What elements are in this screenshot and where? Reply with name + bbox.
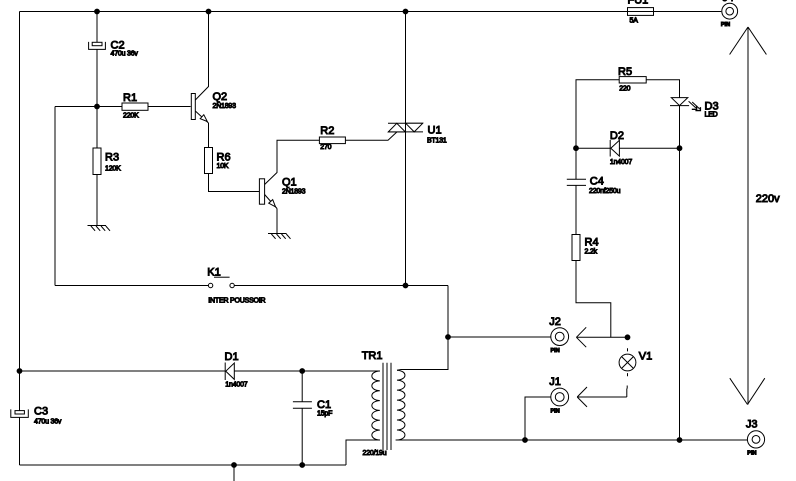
wire C1 riser bottom [301,408,303,465]
svg-text:PIN: PIN [721,22,730,28]
wire J1 arrow riser [626,389,628,398]
svg-text:TR1: TR1 [362,350,383,362]
svg-text:1n4007: 1n4007 [610,159,632,166]
svg-text:FU1: FU1 [628,0,649,7]
svg-text:470u 36v: 470u 36v [111,51,139,58]
wire R3 bottom [96,175,98,226]
junction base row [95,104,100,109]
junction V1 top [625,335,630,340]
diode D2 [610,130,632,166]
arrow into J1 [577,387,627,407]
wire C2 bottom [96,49,98,106]
wire primary return [346,440,380,465]
wire V1 dash c [626,386,628,389]
wire V1 dash a [627,348,629,351]
arrow into J2 [576,327,611,347]
junction K1 triac [403,283,408,288]
wire R6 to Q1 base [209,174,260,192]
wire C4 top [575,148,577,179]
resistor R5 [618,66,646,93]
wire bottom rail [396,439,748,441]
svg-text:INTER POUSSOIR: INTER POUSSOIR [208,298,265,305]
resistor R4 [572,235,599,261]
svg-text:LED: LED [705,112,718,119]
junction left D1 [17,369,22,374]
wire C1 riser top [301,371,303,402]
svg-text:PIN: PIN [747,451,756,457]
wire D3 down [679,106,681,440]
wire R2 to gate [345,132,397,140]
junction top triac [403,9,408,14]
wire R1 to Q2 [148,106,191,108]
svg-text:270: 270 [320,144,331,151]
wire D2 row right [619,147,679,149]
svg-text:5A: 5A [630,18,639,25]
transistor Q1 [259,177,305,209]
wire V1 dash b [627,373,629,376]
svg-text:J3: J3 [746,419,758,431]
switch K1 [207,267,265,305]
resistor R6 [205,148,231,174]
diode D1 [225,351,248,388]
svg-text:220: 220 [619,86,630,93]
svg-text:15pF: 15pF [317,411,332,418]
fuse FU1 [628,0,654,25]
svg-text:R4: R4 [585,237,599,249]
wire triac vertical [405,12,407,286]
wire Q1 collector to R2 [265,140,320,184]
ground under Q1 [268,234,291,239]
svg-text:2N1893: 2N1893 [213,103,237,110]
ground under R3 [88,226,111,231]
wire K1 right [234,285,448,287]
svg-text:PIN: PIN [551,408,560,414]
svg-text:10K: 10K [217,163,229,170]
junction C1 top [300,369,305,374]
wire base row left [55,106,122,108]
svg-text:V1: V1 [639,351,652,363]
wire bottom-left rail [20,464,347,466]
wire R5 to D3 [646,80,679,98]
connector J2 [549,316,568,354]
resistor R1 [122,92,148,120]
wire K1 left [55,285,208,287]
svg-text:220v: 220v [756,193,780,205]
lamp V1 [619,351,652,371]
svg-text:PIN: PIN [551,348,560,354]
svg-text:J2: J2 [549,316,561,328]
LED D3 [670,98,719,119]
wire J2 feed [448,336,551,338]
resistor R3 [93,148,121,175]
capacitor C1 [293,399,332,418]
svg-text:2N1893: 2N1893 [282,189,306,196]
capacitor C3 [11,406,62,426]
junction J2 riser [446,335,451,340]
wire left vertical lower [19,417,21,465]
wire Q2 emitter to R6 [208,123,210,148]
svg-text:120K: 120K [105,166,121,173]
wire left vertical upper [19,12,21,411]
junction D2 right [677,146,682,151]
svg-text:U1: U1 [428,125,442,137]
junction top Q2 [206,9,211,14]
wire D2 row left [576,147,610,149]
svg-text:Q1: Q1 [282,177,297,189]
transistor Q2 [191,91,236,123]
wire bottom stub [233,465,235,481]
connector J3 [746,419,765,457]
wire J2 node to V1 [611,336,628,338]
wire K1 left riser [54,107,56,286]
svg-text:1n4007: 1n4007 [225,381,247,388]
wire C2 top [96,12,98,43]
svg-text:220nf250u: 220nf250u [589,188,621,195]
wire Q2 collector [195,12,208,101]
svg-text:C1: C1 [317,399,331,411]
svg-text:220K: 220K [123,113,139,120]
svg-text:R1: R1 [123,92,137,104]
junction J1 riser [523,438,528,443]
connector top PIN [721,0,738,28]
junction D2 left [574,146,579,151]
svg-text:J4: J4 [722,0,734,4]
svg-text:R5: R5 [618,66,632,78]
svg-text:K1: K1 [207,267,220,279]
transformer TR1 [362,350,405,457]
svg-text:R2: R2 [320,125,334,137]
node 220v supply arrows [730,27,781,405]
svg-text:J1: J1 [549,376,561,388]
svg-text:C3: C3 [34,406,48,418]
svg-text:D1: D1 [225,351,239,363]
wire D1 row right [234,370,380,372]
wire top rail [20,11,722,13]
junction C1 bottom [300,463,305,468]
triac U1 [388,123,447,144]
svg-text:C4: C4 [590,176,604,188]
capacitor C2 [89,40,139,58]
wire R3 top [96,107,98,149]
junction D3 bottom [677,438,682,443]
wire R4 to J2 node [576,260,611,337]
svg-text:220/19u: 220/19u [363,450,387,457]
connector J1 [549,376,568,414]
svg-text:470u 36v: 470u 36v [34,419,62,426]
svg-text:D2: D2 [610,130,624,142]
resistor R2 [319,125,345,151]
wire C4 to R4 [575,185,577,234]
wire R5 branch [576,80,619,148]
svg-text:2.2k: 2.2k [585,249,598,256]
wire Q1 emitter to ground [276,209,278,234]
wire secondary riser [397,286,448,371]
svg-text:R6: R6 [217,152,231,164]
wire D1 row left [20,370,226,372]
svg-text:R3: R3 [105,152,119,164]
svg-text:BT131: BT131 [427,138,447,145]
capacitor C4 [567,176,621,196]
junction bottom stub [232,463,237,468]
junction top C2 [95,9,100,14]
svg-text:Q2: Q2 [213,91,228,103]
wire J1 feed [525,397,551,440]
